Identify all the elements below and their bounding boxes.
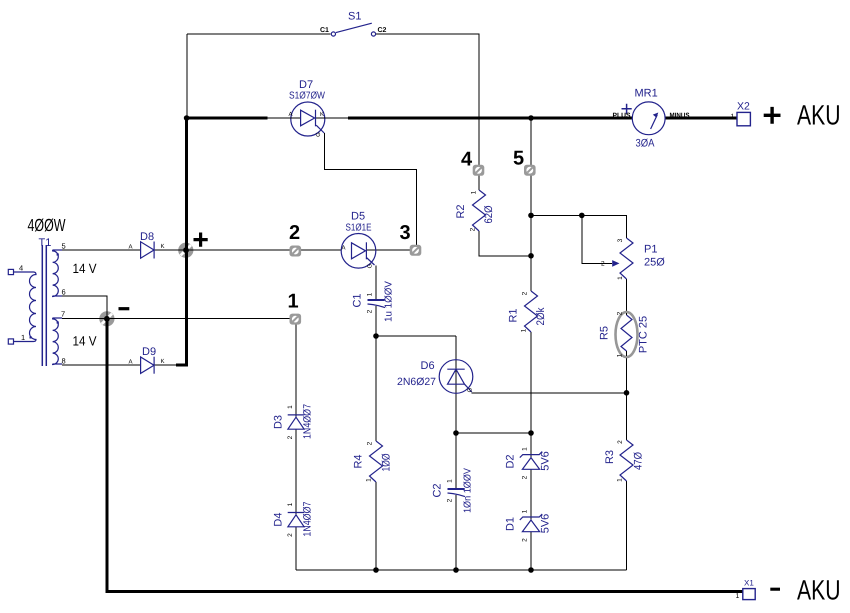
- wire node 5 column: thick rail down through node 5, R1, zeners, to bottom bus: [530, 118, 532, 291]
- svg-text:1: 1: [287, 405, 294, 409]
- svg-text:1: 1: [471, 190, 478, 194]
- wire C1 bottom to junction: [375, 306, 377, 336]
- wire R3 bottom to bus corner: [626, 481, 628, 570]
- svg-text:1: 1: [617, 276, 624, 280]
- svg-text:2: 2: [367, 441, 374, 445]
- wire node 1 down through D3, D4 to bus: [295, 319, 297, 418]
- svg-text:2N6Ø27: 2N6Ø27: [397, 376, 436, 388]
- junction dot thick rail / left drop: [184, 115, 190, 121]
- svg-text:R5: R5: [599, 326, 611, 340]
- wire D6 gate line over to R5 junction: [471, 392, 626, 394]
- label - AKU (bottom right): [770, 575, 840, 606]
- svg-text:C2: C2: [378, 27, 387, 34]
- svg-text:4: 4: [461, 149, 473, 171]
- svg-text:X2: X2: [737, 101, 750, 113]
- wire junction over to D6 anode column: [376, 335, 456, 337]
- svg-text:2: 2: [617, 311, 624, 315]
- svg-text:2: 2: [367, 309, 374, 313]
- wire D5 gate down to C1: [375, 266, 377, 301]
- svg-text:A: A: [289, 111, 293, 118]
- junction dot wiper branch: [579, 213, 585, 219]
- capacitor C1 1u 100V: [352, 281, 395, 322]
- svg-text:2: 2: [601, 261, 605, 268]
- svg-text:D7: D7: [299, 79, 313, 91]
- phase dot lower secondary: [57, 321, 59, 323]
- svg-text:2: 2: [470, 227, 477, 231]
- phase dot upper secondary: [57, 253, 59, 255]
- svg-text:A: A: [129, 244, 133, 251]
- primary winding (pins 4-1): [14, 272, 37, 342]
- zener D1 5V6: [505, 509, 552, 542]
- svg-text:K: K: [161, 243, 165, 250]
- svg-text:1: 1: [736, 593, 740, 600]
- wire P1 bottom to R5: [626, 279, 628, 313]
- node + junction dot: [183, 247, 189, 253]
- junction dot bus D1: [528, 567, 534, 573]
- phase dot primary: [30, 336, 32, 338]
- svg-text:5: 5: [513, 148, 524, 170]
- svg-text:PTC 25: PTC 25: [638, 316, 650, 353]
- wire transformer pin 6 down to - node: [62, 296, 107, 319]
- wire bottom thin bus: [296, 569, 627, 571]
- svg-text:2: 2: [522, 291, 529, 295]
- svg-text:D2: D2: [505, 454, 517, 468]
- svg-text:25Ø: 25Ø: [644, 257, 665, 269]
- svg-text:1: 1: [731, 114, 735, 121]
- svg-text:MR1: MR1: [635, 88, 658, 100]
- junction dot bus R4: [373, 567, 379, 573]
- secondary winding upper (pins 5-6): [53, 250, 62, 296]
- thyristor D5 S101E: [341, 211, 376, 269]
- svg-text:R4: R4: [353, 454, 365, 468]
- svg-text:2: 2: [287, 533, 294, 537]
- svg-text:PLUS: PLUS: [613, 113, 631, 120]
- svg-text:X1: X1: [744, 579, 754, 588]
- zener D2 5V6: [505, 447, 552, 480]
- wire D6 anode lead down through symbol to cathode junction: [455, 336, 457, 433]
- junction dot C1/R4/D6 branch: [373, 333, 379, 339]
- wire R4 column from junction through R4 to bus: [375, 336, 377, 441]
- wire R5 bottom through junction to R3: [626, 356, 628, 440]
- svg-text:1Øn 1ØØV: 1Øn 1ØØV: [463, 468, 474, 513]
- svg-text:1: 1: [522, 447, 529, 451]
- big + at positive node: [194, 233, 208, 247]
- svg-text:1: 1: [447, 479, 454, 483]
- junction dot R2 bottom joins column: [528, 253, 534, 259]
- junction dot thick rail / node5 column: [528, 115, 534, 121]
- node + junction marker (gray, under wires): [178, 243, 193, 258]
- svg-text:1: 1: [521, 328, 528, 332]
- node - junction dot: [104, 316, 110, 322]
- svg-text:2: 2: [289, 222, 300, 244]
- svg-text:AKU: AKU: [797, 575, 841, 606]
- svg-text:1: 1: [366, 478, 373, 482]
- thyristor D7 S1070W: [268, 79, 349, 137]
- big - at negative node: [119, 307, 130, 310]
- wire top rail left segment to S1 C1: [187, 33, 330, 35]
- core: [41, 245, 43, 366]
- svg-text:S1Ø1E: S1Ø1E: [346, 223, 372, 234]
- svg-text:S1: S1: [348, 11, 361, 23]
- terminal X2: [731, 101, 751, 126]
- wire D9 cathode to thick vertical: [155, 364, 179, 366]
- svg-text:14 V: 14 V: [73, 334, 97, 349]
- wire branch to P1 wiper: [582, 215, 612, 263]
- svg-text:R1: R1: [508, 308, 520, 322]
- wire D7 gate down and over to node 3: [325, 133, 417, 250]
- ammeter MR1 30A: [613, 88, 690, 150]
- svg-text:D9: D9: [142, 346, 156, 358]
- svg-text:5V6: 5V6: [540, 514, 552, 534]
- svg-text:2: 2: [287, 435, 294, 439]
- svg-text:4ØØW: 4ØØW: [28, 215, 66, 235]
- svg-text:D6: D6: [421, 360, 435, 372]
- svg-text:R3: R3: [604, 450, 616, 464]
- svg-text:AKU: AKU: [797, 100, 841, 131]
- terminal square pin 4: [8, 269, 13, 274]
- svg-text:1u 1ØØV: 1u 1ØØV: [384, 281, 395, 322]
- wire branch to P1 top: [531, 215, 627, 238]
- wire thick minus drop and bottom rail to X1: [107, 319, 743, 592]
- svg-text:1: 1: [287, 502, 294, 506]
- wire top rail from S1 C2 to corner and down to node 4 column: [376, 34, 479, 190]
- node - junction marker (gray, under wires): [99, 311, 114, 326]
- svg-text:5: 5: [62, 242, 66, 251]
- svg-text:G: G: [467, 387, 474, 392]
- node 5 marker: [524, 165, 536, 176]
- svg-text:7: 7: [61, 310, 65, 319]
- svg-text:47Ø: 47Ø: [633, 452, 645, 470]
- svg-text:62Ø: 62Ø: [483, 205, 495, 223]
- junction dot D6 cathode line joins node-5 column: [528, 430, 534, 436]
- svg-text:D1: D1: [505, 517, 517, 531]
- secondary winding lower (pins 7-8): [53, 318, 62, 364]
- svg-text:2: 2: [522, 475, 529, 479]
- junction dot R5 bottom / D6 gate line: [624, 390, 630, 396]
- terminal X1: [736, 579, 756, 601]
- label + AKU (top right): [764, 100, 841, 131]
- svg-text:G: G: [367, 263, 374, 268]
- resistor R2 620: [455, 190, 495, 231]
- terminal square pin 1: [8, 339, 13, 344]
- svg-text:K: K: [161, 358, 165, 365]
- svg-text:MINUS: MINUS: [670, 113, 690, 120]
- junction dot bus C2: [453, 567, 459, 573]
- wire thick positive rail left of D7: [186, 117, 268, 120]
- capacitor C2 10n 100V: [432, 468, 474, 513]
- PUT D6 2N6027: [397, 360, 474, 394]
- svg-text:C2: C2: [432, 483, 444, 497]
- junction dot D6 cathode: [453, 430, 459, 436]
- svg-text:C1: C1: [352, 293, 364, 307]
- svg-text:G: G: [315, 132, 322, 137]
- svg-text:6: 6: [62, 288, 66, 297]
- node 4 marker: [473, 165, 485, 176]
- svg-text:T1: T1: [39, 237, 52, 249]
- svg-text:1: 1: [21, 333, 25, 342]
- svg-text:5V6: 5V6: [540, 451, 552, 471]
- svg-text:S1Ø7ØW: S1Ø7ØW: [289, 91, 325, 102]
- wire thick positive rail from D7 to meter MR1: [348, 117, 632, 120]
- wire D6 cathode junction over to node-5 column: [456, 432, 531, 434]
- wire transformer pin 5 to D8 anode: [62, 249, 141, 251]
- svg-text:D5: D5: [351, 211, 365, 223]
- svg-text:2: 2: [522, 538, 529, 542]
- wire D8 cathode through + node and node 2 to D5 anode: [154, 249, 342, 251]
- svg-text:1N4ØØ7: 1N4ØØ7: [302, 501, 314, 536]
- svg-text:C1: C1: [320, 27, 329, 34]
- diode D4 1N4007: [273, 501, 314, 536]
- svg-text:3: 3: [617, 238, 624, 242]
- svg-text:2Øk: 2Øk: [535, 307, 547, 325]
- node 2 marker: [290, 246, 302, 257]
- svg-text:D4: D4: [273, 513, 285, 527]
- resistor R3 470: [604, 440, 645, 482]
- svg-text:14 V: 14 V: [73, 261, 97, 276]
- svg-text:K: K: [320, 111, 324, 118]
- svg-text:1N4ØØ7: 1N4ØØ7: [302, 404, 314, 439]
- switch S1: [320, 11, 387, 37]
- node 3 marker: [410, 245, 422, 256]
- node 1 marker: [290, 314, 302, 325]
- thermistor R5 PTC 25: [599, 311, 650, 357]
- svg-text:3: 3: [400, 222, 411, 244]
- diode D8: [129, 231, 165, 259]
- svg-text:P1: P1: [644, 244, 657, 256]
- wire thick vertical from junction through + node down to D9: [176, 117, 186, 365]
- wire left drop from top rail to thick rail: [186, 34, 188, 118]
- svg-text:1: 1: [522, 509, 529, 513]
- svg-text:D8: D8: [140, 231, 154, 243]
- svg-text:1ØØ: 1ØØ: [381, 453, 393, 471]
- svg-text:A: A: [342, 245, 346, 252]
- junction dot P1 branch: [528, 213, 534, 219]
- transformer T1 400W: [8, 215, 96, 366]
- svg-text:R2: R2: [455, 204, 467, 218]
- potentiometer P1 250: [601, 238, 665, 280]
- svg-text:8: 8: [62, 357, 66, 366]
- resistor R1 20k: [508, 291, 548, 332]
- diode D3 1N4007: [273, 404, 314, 439]
- wire R2 bottom over to node-5 column: [479, 231, 531, 256]
- svg-text:2: 2: [447, 498, 454, 502]
- svg-text:D3: D3: [273, 415, 285, 429]
- svg-text:4: 4: [19, 264, 23, 273]
- wire D5 cathode to node 3: [367, 249, 418, 251]
- diode D9: [129, 346, 165, 374]
- svg-text:3ØA: 3ØA: [636, 138, 656, 150]
- resistor R4 100: [353, 441, 393, 482]
- wire transformer pin 8 to D9 anode: [62, 364, 141, 366]
- wire - node rail to node 1: [62, 318, 296, 320]
- svg-text:A: A: [129, 359, 133, 366]
- svg-text:1: 1: [288, 291, 299, 313]
- svg-text:1: 1: [617, 353, 624, 357]
- wire C2 column from junction to C2 and to bus: [455, 433, 457, 489]
- svg-text:1: 1: [367, 292, 374, 296]
- svg-text:1: 1: [617, 478, 624, 482]
- svg-text:2: 2: [617, 440, 624, 444]
- wire thick from MR1 to terminal X2: [665, 117, 737, 120]
